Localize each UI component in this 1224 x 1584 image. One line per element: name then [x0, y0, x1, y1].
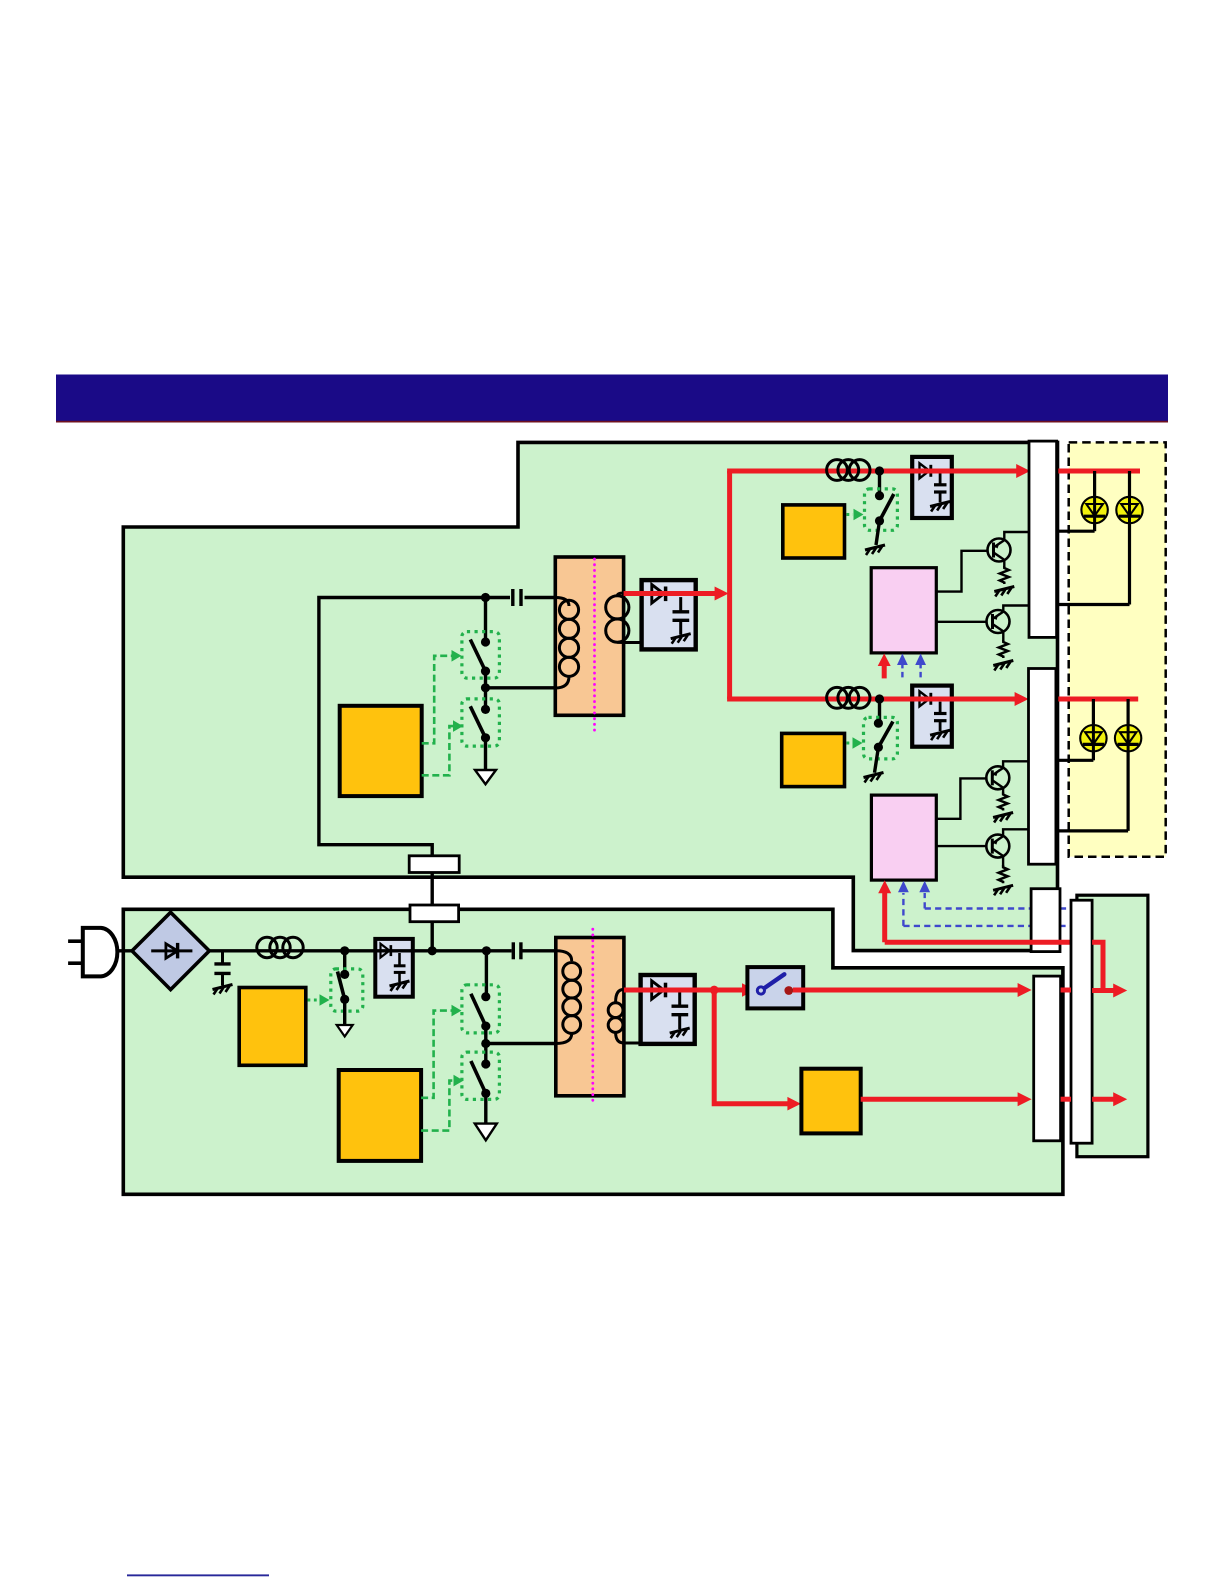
- lamp LP3: [1080, 725, 1106, 751]
- switch SW8 (relay box): [747, 967, 803, 1008]
- control IC1 (orange, upper PSU): [340, 706, 422, 796]
- switch SW1 (in dotted box): [462, 632, 500, 679]
- transistor Q3: [986, 766, 1009, 789]
- ground below R2: [993, 661, 1013, 671]
- resistor R1: [1000, 566, 1009, 584]
- wire node to SW7: [878, 699, 881, 723]
- green control line IC1 to SW1: [422, 656, 452, 744]
- red distribution bus (vertical): [727, 471, 732, 699]
- wire SW2 to ground arrow: [484, 738, 487, 771]
- base wire IC3 to Q1: [936, 551, 987, 592]
- collector wire Q1 to CN1: [1004, 532, 1029, 541]
- red arrowhead into IC8: [787, 1097, 801, 1111]
- emitter wire Q3: [1002, 787, 1004, 793]
- resistor R2: [999, 640, 1008, 658]
- lamp LP4: [1115, 725, 1141, 751]
- red output wire T2 to node: [624, 988, 744, 993]
- rectifier-smoothing block D1 (grey): [642, 580, 696, 649]
- green control line IC7 to SW3: [421, 1011, 452, 1098]
- transformer T2 isolation line (magenta dotted): [591, 929, 594, 1105]
- inductor L2 (branch1): [827, 460, 870, 481]
- wire SW7 to ground: [875, 747, 879, 773]
- red arrowhead into bus: [715, 587, 729, 601]
- wire interconnect down from CB: [431, 918, 434, 951]
- lamp LP4 anode wire: [1126, 699, 1129, 831]
- emitter wire Q2: [1002, 631, 1004, 641]
- connector CN3 (red/blue feedback pass-through): [1031, 889, 1060, 952]
- blue riser 2 into IC5: [898, 881, 909, 926]
- blue riser 1 into IC5: [919, 881, 930, 909]
- connector CN5 (interface board input): [1071, 900, 1092, 1143]
- control IC2 (orange, branch1): [783, 505, 845, 558]
- title header bar: [56, 375, 1168, 423]
- red arrowhead into CN2: [1015, 692, 1029, 706]
- base wire IC5 to Q3: [936, 778, 986, 818]
- green arrowhead into SW2: [453, 720, 463, 732]
- transformer T1 secondary winding: [606, 593, 629, 643]
- transformer T1 isolation line (magenta dotted): [593, 559, 596, 734]
- wire junction to transformer T2 primary bottom: [486, 1042, 557, 1045]
- transformer T2 secondary winding: [608, 989, 624, 1043]
- node branch2: [875, 694, 884, 703]
- connector CN1 (lamp branch 1/2): [1029, 441, 1057, 637]
- wire SW6 to ground: [876, 521, 880, 545]
- red branch 2 rail: [727, 697, 1015, 702]
- collector wire Q3 to CN2: [1003, 761, 1029, 768]
- transistor Q2: [987, 610, 1010, 633]
- switch SW7 (branch2, dotted box): [864, 717, 898, 759]
- red stub CN4 to CN5 line A: [1061, 988, 1071, 993]
- green dotted arrow IC4 to SW7: [847, 737, 863, 749]
- lamp driver IC5 (pink, branch2): [871, 795, 936, 880]
- capacitor C3 (series, lower primary): [513, 942, 521, 959]
- lower power-supply board region: [123, 909, 1063, 1194]
- red standby wire IC8 to CN4: [861, 1097, 1018, 1102]
- lamp LP3 anode wire: [1092, 699, 1095, 760]
- green arrowhead into SW3: [452, 1005, 462, 1017]
- upper power-supply board region: [123, 442, 1057, 950]
- transformer T2 core (lower PSU): [556, 938, 624, 1096]
- green dotted arrow IC2 to SW6: [847, 509, 864, 521]
- capacitor C2 to ground (after bridge): [214, 951, 230, 986]
- inductor L3 (branch2): [827, 687, 870, 708]
- blue feedback line 2 (from CN5): [903, 925, 1071, 927]
- emitter wire Q4: [1002, 856, 1004, 867]
- wire T1 secondary bottom to rectifier D1: [622, 641, 642, 644]
- green arrowhead into SW1: [452, 650, 462, 662]
- wire node to SW5: [343, 951, 346, 975]
- lamp LP2 return wire: [1057, 603, 1130, 606]
- wire node to switch SW1: [484, 598, 487, 643]
- wire feedback loop upper PSU: [319, 598, 486, 922]
- open ground arrow below SW4: [475, 1124, 497, 1141]
- rectifier-smoothing block D3 (branch2 grey): [912, 686, 952, 747]
- switch SW3 (dotted box): [462, 985, 500, 1033]
- bridge rectifier BR1: [132, 912, 209, 989]
- node junction between SW3 SW4: [481, 1039, 490, 1048]
- red stub CN4 to CN5 line B: [1061, 1097, 1071, 1102]
- open ground arrow below SW2: [475, 770, 496, 784]
- red wire SW8 to CN4: [793, 988, 1018, 993]
- control IC6 (orange, inrush): [239, 988, 306, 1066]
- wire node to SW3: [485, 951, 488, 997]
- lamp house region (dashed): [1069, 442, 1166, 856]
- blue feedback line 1 (from CN5): [925, 907, 1071, 909]
- red bus over CN3 to gap: [885, 940, 1071, 945]
- lamp LP4 return wire: [1058, 829, 1129, 832]
- collector wire Q4 to CN2: [1003, 829, 1029, 836]
- ground below R4: [993, 885, 1013, 895]
- surge absorber block D4 (grey): [375, 939, 413, 997]
- red feed wire T1 to bus: [624, 591, 716, 596]
- ground below R1: [994, 587, 1014, 597]
- red enable stub into IC3: [878, 654, 891, 679]
- lamp LP2: [1116, 497, 1142, 523]
- red arrowhead into SW8: [742, 983, 756, 997]
- lamp LP1 return wire: [1057, 530, 1095, 533]
- transformer T1 primary winding: [555, 598, 578, 689]
- inductor L1 (mains filter): [257, 937, 303, 957]
- capacitor C1 (series, upper primary): [513, 589, 556, 606]
- transformer T2 primary winding: [556, 951, 581, 1044]
- ground below SW7: [864, 773, 884, 783]
- rectifier-smoothing block D2 (branch1 grey): [912, 457, 952, 518]
- red rail over D2: [905, 469, 958, 474]
- switch SW2 (in dotted box): [462, 699, 500, 746]
- emitter wire Q1: [1003, 560, 1005, 568]
- connector CN4 (lower PSU output): [1034, 976, 1061, 1141]
- AC plug prongs: [68, 941, 83, 963]
- switch SW4 (dotted box): [462, 1052, 500, 1099]
- transformer T1 core (upper PSU): [555, 557, 623, 715]
- wire SW3 to junction: [484, 1026, 487, 1064]
- wire T2 secondary bottom to rectifier D5: [622, 1042, 642, 1045]
- lamp driver IC3 (pink, branch1): [871, 568, 936, 653]
- connector CNB (lower PSU interlink): [410, 905, 459, 922]
- base wire IC5 to Q4: [936, 845, 986, 847]
- lamp LP1: [1081, 497, 1107, 523]
- regulator IC8 (orange, standby): [801, 1069, 860, 1134]
- green control line IC1 to SW2: [422, 726, 454, 775]
- node branch1: [875, 466, 884, 475]
- resistor R4: [999, 865, 1008, 883]
- ground below SW6: [865, 545, 885, 555]
- node junction between SW1 SW2: [481, 683, 490, 692]
- wire bridge to node: [209, 949, 346, 952]
- red arrowhead into CN4: [1018, 983, 1032, 997]
- rectifier-smoothing block D5 (grey): [641, 975, 695, 1044]
- ground below R3: [993, 813, 1013, 823]
- red arrowhead standby into CN4: [1018, 1092, 1032, 1106]
- node interconnect junction: [428, 946, 437, 955]
- blue control stubs into IC3: [897, 654, 926, 678]
- green control line IC7 to SW4: [421, 1081, 454, 1131]
- lamp LP2 anode wire: [1128, 471, 1131, 605]
- wire through D4 to junction: [346, 949, 512, 952]
- control IC4 (orange, branch2): [782, 733, 845, 786]
- red lamp rail 1 (lamp house): [1058, 469, 1140, 474]
- switch SW6 (branch1, dotted box): [865, 489, 898, 530]
- AC plug body: [83, 928, 118, 977]
- red standby branch down: [714, 990, 788, 1104]
- base wire IC3 to Q2: [936, 621, 986, 623]
- node upper primary top: [481, 593, 490, 602]
- resistor R3: [999, 793, 1008, 811]
- red node lower PSU: [710, 986, 719, 995]
- red feed on interface board (from bus): [1092, 942, 1113, 990]
- footer underline: [127, 1574, 269, 1576]
- green arrowhead into SW4: [454, 1075, 464, 1087]
- red output B on interface board: [1092, 1092, 1127, 1106]
- ground below C2: [213, 985, 233, 995]
- node before series capacitor: [482, 946, 491, 955]
- node mains after filter: [340, 946, 349, 955]
- right interface board region: [1077, 895, 1148, 1156]
- wire node to series capacitor: [486, 596, 511, 599]
- red enable riser into IC5: [878, 880, 891, 942]
- lamp LP3 return wire: [1058, 759, 1094, 762]
- wire plug to bridge: [116, 949, 134, 952]
- red arrowhead into CN1: [1016, 464, 1030, 478]
- transistor Q4: [986, 835, 1009, 858]
- connector CNA (upper PSU interlink): [409, 856, 459, 873]
- switch SW5 (dotted box): [331, 969, 363, 1011]
- red branch 1 rail: [727, 469, 1016, 474]
- open ground arrow below SW5: [337, 1025, 353, 1037]
- red output A on interface board: [1092, 984, 1127, 998]
- wire SW5 to open arrow: [343, 999, 346, 1025]
- wire junction to transformer T1 primary bottom: [486, 686, 558, 689]
- wire SW4 to ground arrow: [484, 1093, 487, 1124]
- wire node to SW6: [878, 471, 881, 496]
- wire SW1 to junction: [484, 671, 487, 709]
- connector CN2 (lamp branch 3/4): [1029, 669, 1056, 865]
- red rail over D3: [905, 697, 958, 702]
- control IC7 (orange, lower PSU): [339, 1070, 421, 1161]
- collector wire Q2 to CN1: [1003, 606, 1029, 613]
- green dotted arrow IC6 to SW5: [308, 994, 330, 1006]
- red lamp rail 2 (lamp house): [1058, 697, 1138, 702]
- transistor Q1: [988, 539, 1011, 562]
- lamp LP1 anode wire: [1093, 471, 1096, 531]
